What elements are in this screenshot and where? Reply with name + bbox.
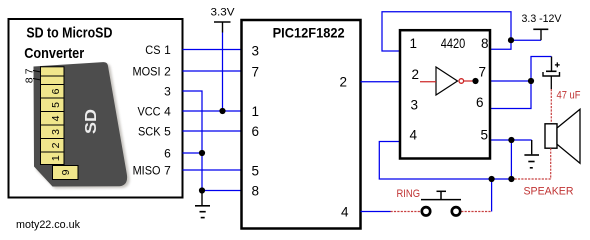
svg-text:8: 8 — [252, 183, 260, 198]
svg-text:8: 8 — [24, 77, 36, 83]
svg-text:4: 4 — [341, 204, 349, 219]
svg-text:3.3 -12V: 3.3 -12V — [522, 13, 563, 25]
svg-text:RING: RING — [397, 188, 421, 200]
svg-text:4420: 4420 — [441, 36, 466, 51]
svg-text:7: 7 — [479, 65, 487, 80]
svg-text:8: 8 — [481, 36, 489, 51]
svg-text:3.3V: 3.3V — [211, 7, 236, 19]
svg-text:MISO: MISO — [133, 163, 161, 177]
svg-text:7: 7 — [24, 68, 36, 74]
svg-text:moty22.co.uk: moty22.co.uk — [16, 219, 80, 231]
svg-text:2: 2 — [412, 67, 420, 82]
svg-text:5: 5 — [481, 127, 489, 142]
svg-text:6: 6 — [252, 124, 260, 139]
svg-text:CS: CS — [145, 43, 160, 57]
svg-text:3: 3 — [411, 98, 419, 113]
svg-text:4: 4 — [410, 127, 418, 142]
svg-text:5: 5 — [50, 102, 62, 108]
svg-text:SD to MicroSD: SD to MicroSD — [26, 24, 112, 41]
svg-text:Converter: Converter — [24, 45, 84, 62]
svg-text:6: 6 — [50, 88, 62, 94]
svg-text:6: 6 — [164, 146, 171, 160]
svg-text:MOSI: MOSI — [133, 64, 161, 78]
svg-text:2: 2 — [50, 142, 62, 148]
svg-text:1: 1 — [252, 104, 260, 119]
svg-text:3: 3 — [252, 43, 260, 58]
svg-text:2: 2 — [164, 64, 171, 78]
svg-text:1: 1 — [50, 155, 62, 161]
svg-text:SCK: SCK — [138, 124, 161, 138]
svg-text:SPEAKER: SPEAKER — [524, 185, 574, 197]
svg-text:1: 1 — [164, 43, 171, 57]
svg-text:9: 9 — [60, 169, 72, 175]
svg-text:3: 3 — [164, 84, 171, 98]
svg-text:VCC: VCC — [138, 104, 161, 118]
svg-text:1: 1 — [410, 36, 418, 51]
svg-text:SD: SD — [83, 109, 100, 134]
svg-text:6: 6 — [476, 95, 484, 110]
svg-text:5: 5 — [164, 124, 171, 138]
svg-text:5: 5 — [252, 163, 260, 178]
svg-text:4: 4 — [50, 115, 62, 121]
svg-text:3: 3 — [50, 129, 62, 135]
svg-text:PIC12F1822: PIC12F1822 — [273, 25, 345, 41]
svg-text:2: 2 — [340, 75, 348, 90]
svg-text:7: 7 — [164, 163, 171, 177]
svg-text:7: 7 — [252, 64, 260, 79]
svg-text:47 uF: 47 uF — [557, 90, 581, 102]
svg-text:4: 4 — [164, 104, 171, 118]
